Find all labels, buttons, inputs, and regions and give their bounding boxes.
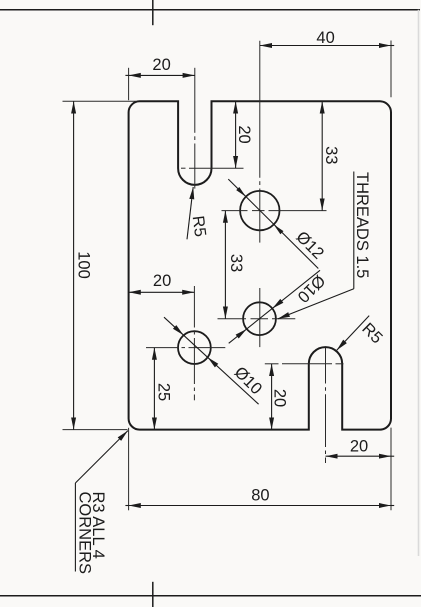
sheet right faint border bbox=[418, 10, 420, 556]
svg-text:R5: R5 bbox=[358, 320, 386, 348]
underline THREADS 1.5 bbox=[353, 172, 355, 289]
extension line left for 80 dim bbox=[128, 428, 130, 511]
dimension 20 bottom line bbox=[326, 455, 392, 457]
svg-text:20: 20 bbox=[153, 272, 171, 290]
svg-text:100: 100 bbox=[74, 251, 92, 279]
svg-text:20: 20 bbox=[271, 389, 289, 407]
plate outline with R3 corners and two slots bbox=[129, 101, 391, 429]
extension line bottom for 100 dim bbox=[63, 429, 128, 431]
centerline horizontal of top slot arc bbox=[181, 167, 186, 169]
leader O12 arrowhead lower bbox=[274, 225, 284, 235]
hole circle O10 middle (threaded) bbox=[243, 302, 276, 335]
leader O10 middle hole diagonal line bbox=[229, 270, 320, 343]
hole circle O12 upper bbox=[240, 191, 279, 230]
leader THREADS 1.5 bbox=[278, 289, 354, 319]
extension line left for top 20 dim bbox=[128, 68, 130, 100]
extension line top for 100 dim bbox=[63, 100, 137, 102]
dimension 20 middle line bbox=[129, 291, 195, 293]
sheet top centering tick bbox=[152, 0, 154, 25]
svg-text:25: 25 bbox=[155, 383, 173, 401]
leader R5 top slot bbox=[187, 187, 193, 239]
centerline vertical through O12 and O10 holes bbox=[259, 41, 261, 178]
sheet bottom centering tick bbox=[152, 582, 154, 607]
leader O10 lower-left diagonal line bbox=[164, 317, 259, 404]
centerline vertical through lower-left O10 hole bbox=[193, 286, 195, 328]
sheet frame top edge line bbox=[0, 9, 420, 11]
leader R5 bottom slot bbox=[337, 316, 370, 351]
dimension 33 lower line bbox=[224, 211, 226, 319]
dim 40 line overshoot stub bbox=[391, 45, 394, 47]
underline R3 corners note bbox=[74, 483, 76, 572]
centerline horizontal through O12 hole bbox=[222, 210, 248, 212]
dimension 80 line bbox=[129, 505, 391, 507]
leader O10 lower-left arrowhead lower bbox=[208, 357, 219, 367]
extension line right for 80 and bottom 20 dims bbox=[390, 428, 392, 511]
dimension 40 line bbox=[260, 45, 391, 47]
dimension 25 line bbox=[153, 348, 155, 430]
svg-text:Ø12: Ø12 bbox=[292, 228, 327, 263]
leader R3 corners bbox=[75, 431, 128, 483]
svg-text:THREADS 1.5: THREADS 1.5 bbox=[353, 172, 371, 278]
extension line right for 40 dim bbox=[390, 41, 392, 98]
svg-text:R5: R5 bbox=[189, 215, 209, 238]
centerline horizontal through lower-left O10 hole bbox=[146, 347, 178, 349]
svg-text:33: 33 bbox=[322, 146, 340, 164]
centerline vertical of bottom slot bbox=[325, 348, 327, 384]
svg-text:Ø10: Ø10 bbox=[231, 363, 266, 398]
dim 20 bottom line overshoot stub bbox=[391, 455, 394, 457]
dimension 33 upper line bbox=[321, 101, 323, 210]
centerline horizontal through middle O10 hole bbox=[218, 318, 247, 320]
dim 20 top line overshoot stub bbox=[125, 74, 128, 76]
svg-text:20: 20 bbox=[350, 438, 368, 456]
leader O10 middle hole arrowhead upper-right bbox=[272, 299, 283, 309]
leader O12 arrowhead upper bbox=[236, 187, 246, 197]
dimension 20 slot depth line bbox=[235, 101, 237, 168]
dimension 100 line bbox=[73, 101, 75, 429]
svg-text:40: 40 bbox=[316, 29, 334, 47]
dimension 20 right slot depth line bbox=[271, 364, 273, 430]
svg-text:20: 20 bbox=[152, 56, 170, 74]
svg-text:CORNERS: CORNERS bbox=[75, 492, 93, 575]
dim 80 line overshoot stubs bbox=[125, 505, 128, 507]
leader O12 diagonal line bbox=[228, 179, 318, 268]
centerline vertical of top slot bbox=[194, 68, 196, 133]
leader O10 middle hole arrowhead lower-left bbox=[236, 329, 247, 339]
dimension 20 top line bbox=[129, 74, 195, 76]
hole circle O10 lower-left bbox=[178, 331, 211, 364]
svg-text:33: 33 bbox=[227, 254, 245, 272]
svg-text:20: 20 bbox=[235, 125, 253, 143]
centerline horizontal of bottom slot arc bbox=[265, 363, 279, 365]
svg-text:80: 80 bbox=[251, 487, 269, 505]
sheet frame bottom edge line bbox=[0, 595, 421, 597]
leader O10 lower-left arrowhead upper bbox=[173, 325, 184, 335]
